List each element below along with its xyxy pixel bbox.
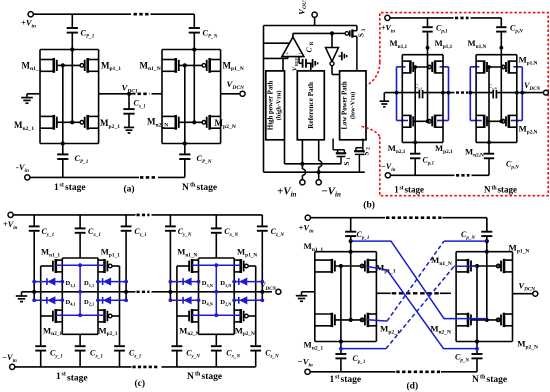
wire: mid line across stage 1 (red box)	[385, 92, 419, 94]
node: bottom gate junction stage N (panel d)	[485, 318, 489, 322]
wire: top rail dashes (panel c)	[137, 214, 150, 217]
svg-text:N: N	[472, 375, 479, 385]
wire: VDCN output (panel a)	[221, 93, 240, 95]
blue center vertical stage N (panel c)	[215, 265, 217, 315]
svg-text:(a): (a)	[124, 184, 135, 195]
wire: cross vertical A stage N (red box)	[488, 67, 490, 142]
wire: bottom gate lead stage 1 (red box)	[413, 120, 429, 122]
diode D3,N (panel c)	[170, 281, 198, 283]
wire: mid line dashes (red box)	[456, 91, 468, 93]
capacitor Cp,N bottom (red box)	[488, 142, 490, 153]
blue bulk line bottom stage 1 (panel c)	[56, 314, 105, 316]
wire: cross vertical B stage 1 (panel d)	[350, 241, 352, 320]
wire: VDC1 to stage N (panel a)	[152, 93, 163, 95]
diode D3,1 (panel c)	[34, 281, 62, 283]
transistor Mp2_1 (panel d)	[367, 313, 370, 327]
transistor Mn2_1 (panel c)	[54, 309, 57, 323]
wire: inner vertical right stage N (panel c)	[233, 258, 235, 334]
wire: stage 1 frame (panel d)	[314, 252, 316, 342]
capacitor Cz_N top (panel c)	[261, 215, 263, 226]
wire: stage N frame (red box)	[475, 55, 477, 143]
ground (panel a)	[21, 97, 33, 99]
transistor Mn1_N (panel d)	[467, 259, 470, 273]
transistor Mn2_N (NMOS, panel a)	[175, 115, 178, 130]
wire: bottom rail right (red box)	[472, 174, 490, 176]
wire: bottom gate lead stage N (red box)	[487, 120, 503, 122]
red callout curve top (panel b)	[367, 62, 380, 86]
wire: cross vertical B stage N (panel d)	[486, 241, 488, 320]
wire: cross vertical A stage 1 (red box)	[414, 67, 416, 142]
capacitor Cz_N bottom (panel c)	[255, 316, 257, 345]
wire: feedback line to op-amp (panel b)	[264, 42, 290, 44]
blue wire D: stage1 bottom gate to stageN top node (dashed, panel d)	[366, 320, 387, 322]
capacitor CP_1 bottom (panel a)	[62, 144, 64, 154]
wire: mid DC line (panel c)	[22, 291, 136, 293]
wire: Vref cap to ground (panel b)	[307, 62, 312, 64]
node: bottom plate node stage 1 (panel a)	[61, 141, 65, 145]
node: mid line left rail stage 1 (panel c)	[32, 290, 36, 294]
wire: VDCN out (panel d)	[513, 293, 533, 295]
capacitor Vref (panel b)	[302, 59, 304, 68]
svg-text:(high-Vᴛʜ): (high-Vᴛʜ)	[276, 90, 283, 120]
wire: cross-couple vertical A stage 1 (panel a)	[62, 65, 64, 143]
terminal VDCN (panel c)	[276, 289, 281, 294]
terminal -Vin (panel d)	[305, 369, 310, 374]
red dashed box (panel b)	[380, 13, 548, 196]
wire: mid dashed line (panel d)	[376, 292, 390, 294]
node: top plate node stage 1 (panel a)	[70, 47, 74, 51]
transistor Mn1_1 (panel c)	[54, 259, 57, 273]
svg-text:1: 1	[394, 185, 399, 195]
node: mid line rail-right stage 1 (red box)	[441, 91, 445, 95]
svg-text:(c): (c)	[135, 378, 146, 389]
svg-text:Reference Path: Reference Path	[307, 82, 315, 129]
transistor Mn1_1 (panel d)	[331, 259, 334, 273]
node: -Vin junction (panel b)	[317, 170, 321, 174]
wire: bottom gate lead stage 1 (panel a)	[57, 121, 80, 123]
diode D4,N (panel c)	[170, 299, 198, 301]
transistor Mp2_1 (PMOS, panel a)	[86, 115, 89, 130]
svg-text:−: −	[298, 50, 302, 57]
svg-text:(b): (b)	[363, 200, 375, 211]
block High power Path (panel b)	[266, 71, 285, 140]
node: mid line right rail stage N (panel c)	[260, 290, 264, 294]
wire: bottom rail right (panel a)	[158, 176, 185, 178]
node: top gate junction stage 1 (panel a)	[61, 63, 65, 67]
node: mid line blue-left stage N (red box)	[468, 91, 472, 95]
wire: top rail dashes (panel a)	[134, 13, 149, 16]
wire: cross vertical B stage 1 (red box)	[427, 48, 429, 122]
svg-text:Low Power Path: Low Power Path	[342, 81, 349, 129]
diode D2,N (panel c)	[234, 299, 262, 301]
wire: stage N frame (panel d)	[455, 252, 457, 342]
transistor Mn2_1 (NMOS, panel a)	[52, 115, 55, 130]
node: bottom gate junction stage N (panel a)	[192, 120, 196, 124]
wire: top gate lead stage 1 (red box)	[413, 66, 429, 68]
terminal VDCN (red box)	[544, 90, 549, 95]
terminal -Vin (panel c)	[10, 364, 15, 369]
wire: top rail (red box)	[390, 17, 454, 19]
node: +Vin junction (panel b)	[300, 162, 304, 166]
transistor Mp1_1 (PMOS, panel a)	[86, 58, 89, 73]
transistor Mn1,1 (red box)	[409, 60, 412, 73]
diode D1,N (panel c)	[234, 281, 262, 283]
terminal VDCN (panel d)	[533, 291, 538, 296]
svg-text:stage: stage	[202, 372, 223, 382]
block Low Power Path (panel b)	[340, 71, 366, 140]
inverter U2 (panel b)	[326, 48, 339, 62]
node: bottom plate node stage 1 (red box)	[413, 141, 417, 145]
transistor Mp1,1 (red box)	[434, 60, 437, 73]
wire: H1 bus (panel b)	[285, 163, 342, 165]
wire: +Vin vertical with hop (panel b)	[301, 140, 303, 164]
blue bulk bracket right stage 1 (red box)	[448, 67, 450, 121]
terminal +Vin (panel d)	[305, 215, 310, 220]
transistor Mn2_N (panel d)	[467, 313, 470, 327]
transistor Mp1,N (red box)	[507, 60, 510, 73]
wire: box bottom edge stage N (panel c)	[199, 333, 235, 335]
node: top gate junction stage N (red box)	[487, 65, 491, 69]
blue bulk line bottom stage N (panel c)	[192, 314, 241, 316]
node: bottom plate node stage 1 (panel d)	[339, 339, 343, 343]
terminal +Vin (red box)	[385, 15, 390, 20]
wire: bottom gate lead stage 1 (panel d)	[335, 319, 363, 321]
svg-text:stage: stage	[487, 375, 508, 385]
diode D2,1 (panel c)	[98, 299, 126, 301]
svg-text:REF: REF	[294, 57, 299, 66]
wire: Vref to reference path box (panel b)	[310, 63, 312, 71]
wire: bottom rail dashes (panel c)	[133, 366, 160, 369]
svg-text:S: S	[343, 161, 351, 165]
wire: VDC1 dashes (panel a)	[138, 93, 150, 96]
capacitor Cp_1 top (panel d)	[350, 218, 352, 231]
capacitor Cx_N top (panel c)	[215, 215, 217, 228]
wire: gate rail left stage N (panel c)	[176, 266, 178, 316]
capacitor Cx_1 bottom (panel c)	[79, 334, 81, 345]
svg-text:N: N	[182, 183, 189, 193]
wire: gate rail right stage N (panel c)	[255, 266, 257, 316]
wire: top gate lead stage N (panel d)	[471, 265, 499, 267]
terminal +Vin (panel b)	[300, 180, 305, 185]
terminal +Vin (panel a)	[28, 12, 33, 17]
node: top plate node stage 1 (panel d)	[349, 239, 353, 243]
wire: stage N outer frame (panel a)	[161, 50, 163, 144]
transistor Mp2_N (panel d)	[503, 313, 506, 327]
svg-text:st: st	[335, 375, 339, 381]
wire: cross vertical A stage 1 (panel d)	[340, 266, 342, 342]
capacitor Cx_1 top (panel c)	[79, 215, 81, 228]
node: top gate junction stage N (panel d)	[475, 264, 479, 268]
transistor S3 (PMOS, panel b)	[356, 26, 358, 31]
wire: cross-couple vertical A stage N (panel a)	[184, 65, 186, 143]
node: mid line blue-right stage 1 (red box)	[447, 91, 451, 95]
transistor Mp1_1 (panel c)	[103, 259, 106, 273]
node: mid line blue-left stage 1 (red box)	[395, 91, 399, 95]
wire: top gate lead stage 1 (panel a)	[57, 64, 80, 66]
blue bulk bracket left stage 1 (red box)	[396, 67, 398, 121]
wire: ground branch (panel d)	[302, 291, 315, 293]
wire: top gate lead stage N (panel a)	[179, 64, 202, 66]
svg-text:+: +	[285, 51, 289, 58]
wire: top rail right (panel a)	[151, 13, 195, 15]
node: top plate node stage 1 (red box)	[426, 46, 430, 50]
wire: top rail (panel b)	[264, 25, 357, 27]
node: bottom gate junction stage 1 (panel a)	[70, 120, 74, 124]
svg-text:(d): (d)	[407, 381, 419, 392]
wire: top rail right (panel c)	[152, 214, 263, 216]
wire: top gate lead stage N (red box)	[487, 66, 503, 68]
svg-text:stage: stage	[67, 374, 88, 384]
capacitor Cy_1 top (panel c)	[33, 215, 35, 226]
transistor Mp2_N (PMOS, panel a)	[208, 115, 211, 130]
capacitor CP_1 top (panel a)	[71, 14, 73, 27]
transistor Mn2_1 (panel d)	[331, 313, 334, 327]
transistor Mn1_1 (NMOS, panel a)	[52, 58, 55, 73]
ground for Cs_1 (panel a)	[124, 126, 134, 128]
wire: bottom rail dashes (red box)	[456, 174, 470, 177]
blue bulk line top stage 1 (panel c)	[56, 264, 105, 266]
terminal -Vin (panel a)	[25, 175, 30, 180]
wire: bottom rail (red box)	[391, 174, 455, 176]
svg-text:stage: stage	[498, 185, 518, 195]
wire: gate rail right stage 1 (panel c)	[119, 266, 121, 316]
capacitor Cy_1 bottom (panel c)	[40, 316, 42, 345]
wire: bottom rail -Vin (panel a)	[30, 176, 139, 178]
svg-text:R: R	[310, 41, 315, 45]
transistor S1 (panel b)	[332, 139, 334, 150]
node: mid line rail-right stage N (red box)	[515, 91, 519, 95]
ground (panel d)	[296, 295, 307, 297]
wire: inner vertical left stage N (panel c)	[198, 258, 200, 334]
wire: mid line across stage N (red box)	[470, 92, 492, 94]
red callout curve bottom (panel b)	[362, 126, 380, 136]
blue bulk line top stage N (panel c)	[192, 264, 241, 266]
svg-text:stage: stage	[65, 183, 86, 193]
blue tap node bottom stage N (panel d)	[475, 347, 479, 351]
svg-text:stage: stage	[197, 183, 218, 193]
svg-text:st: st	[60, 183, 64, 189]
wire: cross vertical A stage N (panel d)	[476, 266, 478, 342]
node: bottom gate junction stage 1 (red box)	[426, 119, 430, 123]
node: bottom plate node stage N (panel d)	[475, 339, 479, 343]
wire: top rail right (red box)	[471, 17, 502, 19]
node: bottom gate junction stage 1 (panel d)	[349, 318, 353, 322]
wire: bottom rail right (panel d)	[441, 371, 477, 373]
capacitor Cy_N top (panel c)	[169, 215, 171, 226]
capacitor Cy_N bottom (panel c)	[176, 316, 178, 345]
terminal -Vin (red box)	[385, 173, 390, 178]
terminal VDCN (panel a)	[240, 91, 245, 96]
wire: high power path bottom stem (panel b)	[284, 140, 286, 164]
svg-text:th: th	[195, 371, 201, 377]
wire: top rail dashes (red box)	[455, 17, 469, 20]
wire: top rail (panel d)	[310, 217, 385, 219]
transistor Mp1_N (panel d)	[503, 259, 506, 273]
svg-text:1: 1	[330, 375, 335, 385]
transistor Mn1_N (panel c)	[191, 259, 194, 273]
node: top gate junction stage N (panel a)	[183, 63, 187, 67]
wire: op-amp output (panel b)	[292, 33, 294, 37]
blue bulk bracket right stage N (red box)	[521, 67, 523, 121]
node: box top crossing stage N (panel d)	[485, 250, 489, 254]
capacitor Cs_1 (panel a)	[128, 94, 130, 109]
node: top gate junction stage 1 (panel d)	[339, 264, 343, 268]
wire: gate rail left stage 1 (panel c)	[40, 266, 42, 316]
blue center vertical stage 1 (panel c)	[79, 265, 81, 315]
wire: top gate lead stage 1 (panel d)	[335, 265, 363, 267]
blue wire C: stage1 bottom plate to stageN top gate (dashed, panel d)	[341, 348, 386, 350]
transistor Mp2_N (panel c)	[239, 309, 242, 323]
wire: left outline vertical (panel b)	[263, 26, 265, 173]
svg-text:1: 1	[54, 183, 59, 193]
capacitor Cp_N top (panel d)	[486, 218, 488, 231]
svg-text:th: th	[190, 183, 196, 189]
diode D1,1 (panel c)	[98, 281, 126, 283]
svg-text:st: st	[400, 185, 404, 191]
svg-text:1: 1	[56, 372, 61, 382]
diode D4,1 (panel c)	[34, 299, 62, 301]
transistor Mn2,N (red box)	[483, 115, 486, 128]
terminal VOUT (panel b)	[312, 12, 317, 17]
wire: stage 1 outer frame (panel a)	[39, 50, 41, 144]
wire: VDC1 output (panel a)	[99, 93, 136, 95]
ground (panel c)	[21, 292, 23, 296]
wire: H2 bus (panel b)	[264, 171, 365, 173]
ground (red box)	[383, 93, 385, 101]
blue wire B: stage1 top gate to stageN bottom plate (panel d)	[366, 266, 477, 348]
capacitor CP_N top (panel a)	[193, 14, 195, 27]
capacitor Cp_N bottom (panel d)	[476, 342, 478, 354]
transistor Mp1_1 (panel d)	[367, 259, 370, 273]
node: bottom gate junction stage N (red box)	[499, 119, 503, 123]
transistor Mp2,N (red box)	[507, 115, 510, 128]
transistor Mp1_N (PMOS, panel a)	[208, 58, 211, 73]
svg-text:st: st	[62, 371, 66, 377]
wire: top rail +Vin (panel a)	[33, 13, 131, 15]
capacitor Cp,N top (red box)	[500, 18, 502, 27]
transistor Mn1,N (red box)	[483, 60, 486, 73]
capacitor Cs,N (red box)	[492, 90, 494, 98]
node: mid line blue-right stage N (red box)	[520, 91, 524, 95]
capacitor Cz_1 bottom (panel c)	[119, 316, 121, 345]
blue bulk bracket left stage N (red box)	[469, 67, 471, 121]
node: top plate node stage N (red box)	[499, 46, 503, 50]
transistor Mn1_N (NMOS, panel a)	[175, 58, 178, 73]
wire: -Vin vertical with hop (panel b)	[318, 140, 320, 161]
wire: inner vertical right stage 1 (panel c)	[97, 258, 99, 334]
transistor Mn2_N (panel c)	[191, 309, 194, 323]
wire: VOUT stem (panel b)	[314, 17, 316, 25]
wire: inverter output (panel b)	[331, 66, 333, 75]
svg-text:OUT: OUT	[302, 0, 308, 9]
capacitor Cs,1 (red box)	[418, 90, 420, 98]
capacitor CP_N bottom (panel a)	[184, 144, 186, 154]
node: top plate node stage N (panel d)	[485, 239, 489, 243]
transistor Mp1_N (panel c)	[239, 259, 242, 273]
node VDC1 (panel a)	[127, 92, 131, 96]
op-amp U1 (panel b)	[282, 37, 304, 57]
wire: box bottom edge stage 1 (panel c)	[62, 333, 98, 335]
capacitor Cp,1 bottom (red box)	[414, 142, 416, 153]
node: mid line right rail stage 1 (panel c)	[124, 290, 128, 294]
ground Vref (panel b, rotated)	[312, 59, 314, 68]
transistor Mp2,1 (red box)	[434, 115, 437, 128]
node: mid line left rail stage N (panel c)	[168, 290, 172, 294]
wire: top rail dashes (panel d)	[386, 216, 442, 219]
wire: bottom rail (panel d)	[310, 371, 395, 373]
wire: stage 1 frame (red box)	[401, 55, 403, 143]
ground inverter (panel b, rotated)	[341, 52, 343, 61]
node: box top crossing stage 1 (panel d)	[349, 250, 353, 254]
wire: VDCN out (red box)	[522, 92, 543, 94]
node: bottom plate node stage N (panel a)	[183, 141, 187, 145]
capacitor Cp_1 bottom (panel d)	[340, 342, 342, 354]
wire: cross-couple vertical B stage N (panel a)	[193, 50, 195, 123]
svg-text:N: N	[484, 185, 491, 195]
node: bottom plate node stage N (red box)	[487, 141, 491, 145]
terminal -Vin (panel b)	[316, 180, 321, 185]
block Reference Path (panel b)	[297, 71, 324, 140]
svg-text:High power Path: High power Path	[268, 81, 275, 131]
node: top gate junction stage 1 (red box)	[413, 65, 417, 69]
terminal +Vin (panel c)	[8, 212, 13, 217]
blue tap node bottom stage 1 (panel d)	[339, 347, 343, 351]
wire: +input line (panel b)	[264, 57, 289, 59]
wire: cross vertical B stage N (red box)	[500, 48, 502, 122]
wire: bottom gate lead stage N (panel d)	[471, 319, 499, 321]
wire: bottom gate lead stage N (panel a)	[179, 121, 202, 123]
capacitor Cp,1 top (red box)	[427, 18, 429, 27]
wire: top rail (panel c)	[13, 214, 135, 216]
wire: top rail right (panel d)	[443, 217, 487, 219]
blue wire A: stage1 top node to stageN bottom gate (panel d)	[351, 241, 487, 319]
svg-text:S: S	[358, 33, 366, 37]
capacitor Cx_N bottom (panel c)	[215, 334, 217, 345]
node: inverter input (panel b)	[330, 31, 334, 35]
wire: inner vertical left stage 1 (panel c)	[61, 258, 63, 334]
wire: bottom rail dashes (panel d)	[396, 370, 440, 373]
transistor Mp2_1 (panel c)	[103, 309, 106, 323]
wire: ground branch (panel a)	[27, 93, 40, 95]
svg-text:stage: stage	[405, 185, 425, 195]
wire: box top edge stage N (panel c)	[199, 257, 235, 259]
wire: bottom rail (panel c)	[15, 366, 132, 368]
wire: bottom rail dashes (panel a)	[140, 176, 156, 179]
svg-text:N: N	[187, 372, 194, 382]
transistor Mn2,1 (red box)	[409, 115, 412, 128]
capacitor Cz_1 top (panel c)	[125, 215, 127, 226]
svg-text:th: th	[480, 375, 486, 381]
wire: cross-couple vertical B stage 1 (panel a)	[71, 50, 73, 123]
wire: high power path top stem (panel b)	[282, 58, 284, 71]
svg-text:stage: stage	[341, 375, 362, 385]
node: top plate node stage N (panel a)	[192, 47, 196, 51]
wire: -input to Vref cap (panel b)	[298, 57, 300, 64]
svg-text:S: S	[362, 151, 370, 155]
wire: bottom rail right (panel c)	[162, 366, 256, 368]
svg-text:(low-Vᴛʜ): (low-Vᴛʜ)	[349, 92, 356, 119]
wire: box top edge stage 1 (panel c)	[62, 257, 98, 259]
transistor S2 (panel b)	[362, 139, 364, 148]
